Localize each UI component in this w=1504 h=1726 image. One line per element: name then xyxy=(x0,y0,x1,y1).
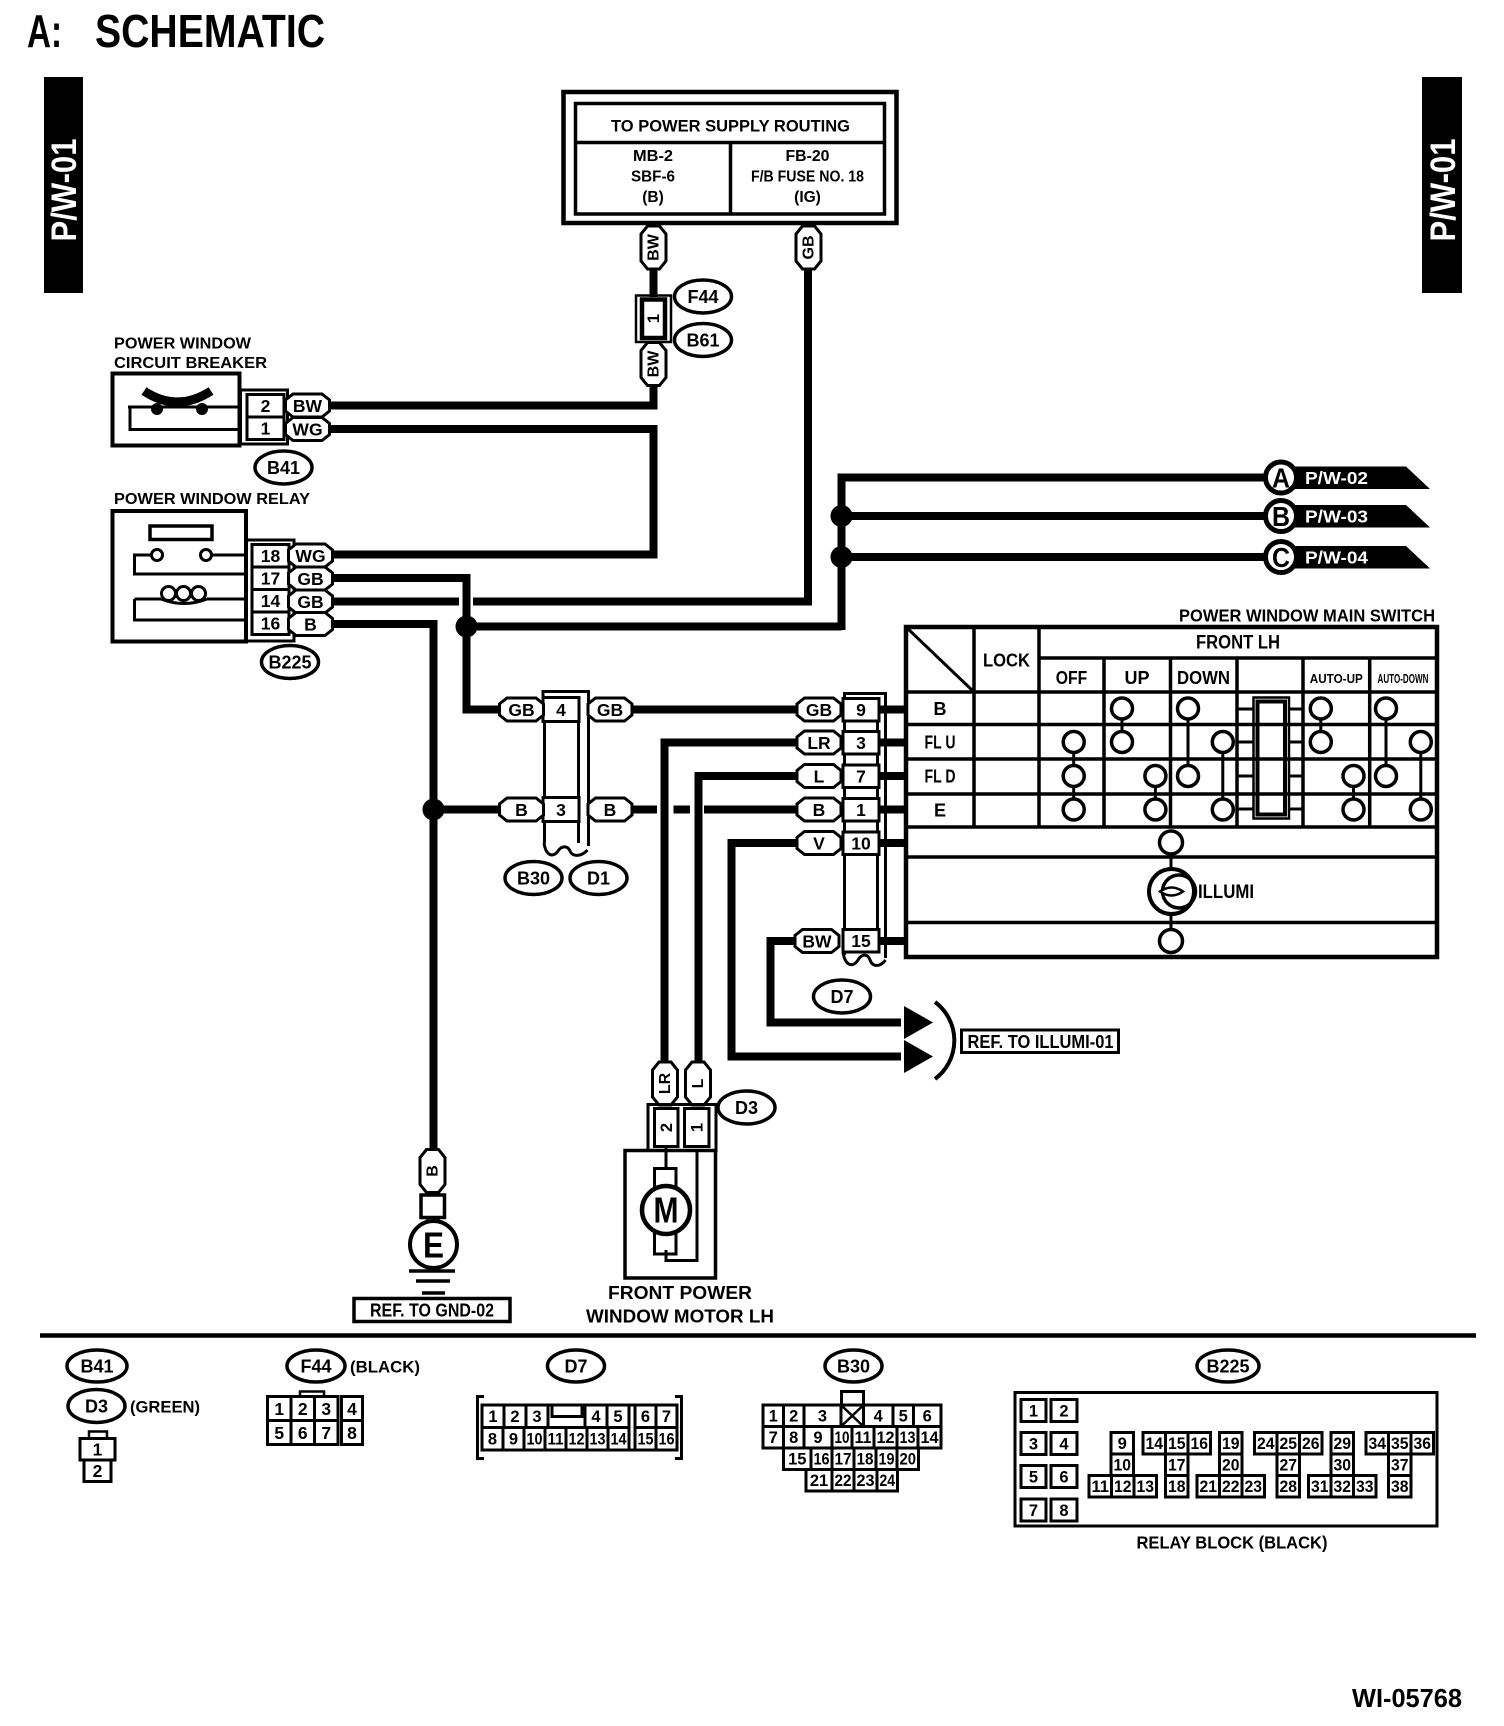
svg-text:RELAY BLOCK (BLACK): RELAY BLOCK (BLACK) xyxy=(1137,1533,1328,1553)
svg-text:1: 1 xyxy=(645,314,663,323)
svg-text:31: 31 xyxy=(1311,1478,1329,1496)
svg-text:3: 3 xyxy=(532,1408,541,1426)
svg-text:BW: BW xyxy=(802,931,832,951)
svg-text:18: 18 xyxy=(857,1451,874,1469)
svg-text:6: 6 xyxy=(1059,1468,1068,1486)
svg-text:FB-20: FB-20 xyxy=(786,148,830,165)
svg-text:A:: A: xyxy=(27,5,62,57)
svg-text:25: 25 xyxy=(1280,1435,1298,1453)
svg-text:B: B xyxy=(934,699,947,719)
svg-text:15: 15 xyxy=(788,1451,806,1469)
svg-text:5: 5 xyxy=(1029,1468,1038,1486)
svg-text:BW: BW xyxy=(646,350,663,378)
svg-text:B: B xyxy=(304,614,317,634)
svg-text:D1: D1 xyxy=(587,868,610,888)
svg-text:WI-05768: WI-05768 xyxy=(1352,1683,1462,1713)
svg-text:4: 4 xyxy=(874,1408,884,1426)
svg-text:37: 37 xyxy=(1391,1457,1409,1475)
svg-text:P/W-03: P/W-03 xyxy=(1305,507,1368,527)
svg-text:8: 8 xyxy=(488,1431,497,1449)
svg-text:4: 4 xyxy=(556,700,566,720)
svg-text:24: 24 xyxy=(1257,1435,1275,1453)
svg-text:B30: B30 xyxy=(837,1356,870,1376)
svg-text:BW: BW xyxy=(293,396,323,416)
svg-text:10: 10 xyxy=(1114,1457,1132,1475)
svg-text:M: M xyxy=(654,1190,679,1231)
svg-text:6: 6 xyxy=(923,1408,932,1426)
svg-text:WG: WG xyxy=(292,419,322,439)
svg-text:L: L xyxy=(814,766,825,786)
svg-text:8: 8 xyxy=(789,1429,798,1447)
svg-text:2: 2 xyxy=(510,1408,519,1426)
svg-text:P/W-02: P/W-02 xyxy=(1305,468,1368,488)
svg-text:14: 14 xyxy=(611,1431,628,1449)
svg-text:19: 19 xyxy=(1222,1435,1240,1453)
svg-text:B: B xyxy=(1272,501,1290,532)
svg-text:11: 11 xyxy=(1092,1478,1110,1496)
svg-text:V: V xyxy=(813,833,825,853)
svg-text:WINDOW MOTOR LH: WINDOW MOTOR LH xyxy=(586,1307,774,1327)
svg-text:1: 1 xyxy=(261,419,271,439)
svg-text:(BLACK): (BLACK) xyxy=(350,1359,420,1377)
svg-text:SCHEMATIC: SCHEMATIC xyxy=(95,5,325,57)
svg-text:28: 28 xyxy=(1280,1478,1298,1496)
svg-text:P/W-01: P/W-01 xyxy=(45,139,84,242)
svg-text:22: 22 xyxy=(835,1472,852,1490)
svg-text:14: 14 xyxy=(921,1429,940,1447)
svg-text:27: 27 xyxy=(1280,1457,1298,1475)
svg-text:7: 7 xyxy=(662,1408,671,1426)
svg-text:1: 1 xyxy=(488,1408,497,1426)
svg-text:4: 4 xyxy=(347,1399,357,1419)
svg-text:GB: GB xyxy=(597,700,623,720)
svg-text:15: 15 xyxy=(638,1431,654,1449)
svg-text:2: 2 xyxy=(1059,1402,1068,1420)
svg-text:3: 3 xyxy=(321,1399,331,1419)
svg-text:E: E xyxy=(934,801,946,821)
svg-text:33: 33 xyxy=(1356,1478,1374,1496)
svg-text:L: L xyxy=(690,1078,707,1088)
svg-text:2: 2 xyxy=(93,1461,103,1481)
svg-text:18: 18 xyxy=(1168,1478,1186,1496)
svg-text:B41: B41 xyxy=(80,1356,113,1376)
svg-text:B30: B30 xyxy=(517,868,550,888)
svg-text:LR: LR xyxy=(657,1072,674,1094)
svg-text:9: 9 xyxy=(813,1429,822,1447)
svg-text:6: 6 xyxy=(641,1408,650,1426)
svg-text:B: B xyxy=(604,800,617,820)
svg-text:8: 8 xyxy=(347,1423,357,1443)
svg-text:17: 17 xyxy=(835,1451,852,1469)
svg-text:B61: B61 xyxy=(686,330,719,350)
svg-text:18: 18 xyxy=(261,546,281,566)
svg-text:C: C xyxy=(1272,542,1290,573)
svg-text:19: 19 xyxy=(879,1451,895,1469)
svg-text:11: 11 xyxy=(855,1429,872,1447)
svg-text:2: 2 xyxy=(658,1123,676,1132)
svg-text:3: 3 xyxy=(1029,1435,1038,1453)
svg-text:12: 12 xyxy=(877,1429,895,1447)
svg-text:23: 23 xyxy=(857,1472,875,1490)
svg-text:9: 9 xyxy=(856,700,866,720)
svg-text:16: 16 xyxy=(261,614,281,634)
svg-text:WG: WG xyxy=(295,546,325,566)
svg-text:8: 8 xyxy=(1059,1502,1068,1520)
svg-text:D7: D7 xyxy=(830,987,853,1007)
svg-text:CIRCUIT BREAKER: CIRCUIT BREAKER xyxy=(114,355,267,372)
svg-text:9: 9 xyxy=(1118,1435,1127,1453)
svg-text:LOCK: LOCK xyxy=(983,650,1031,671)
svg-text:GB: GB xyxy=(508,700,534,720)
svg-text:7: 7 xyxy=(769,1429,778,1447)
svg-text:P/W-01: P/W-01 xyxy=(1424,139,1463,242)
svg-text:36: 36 xyxy=(1414,1435,1432,1453)
svg-text:FL D: FL D xyxy=(925,767,956,787)
svg-text:1: 1 xyxy=(93,1440,103,1460)
svg-text:13: 13 xyxy=(900,1429,916,1447)
svg-text:17: 17 xyxy=(261,569,280,589)
svg-text:12: 12 xyxy=(569,1431,585,1449)
svg-text:21: 21 xyxy=(810,1472,828,1490)
svg-text:10: 10 xyxy=(835,1429,850,1447)
svg-text:9: 9 xyxy=(509,1431,518,1449)
svg-text:P/W-04: P/W-04 xyxy=(1305,548,1368,568)
svg-text:16: 16 xyxy=(1191,1435,1209,1453)
svg-text:3: 3 xyxy=(856,733,866,753)
svg-text:B225: B225 xyxy=(1206,1356,1249,1376)
svg-text:TO POWER SUPPLY ROUTING: TO POWER SUPPLY ROUTING xyxy=(611,118,850,136)
svg-text:B41: B41 xyxy=(267,458,300,478)
svg-text:38: 38 xyxy=(1391,1478,1409,1496)
svg-text:1: 1 xyxy=(769,1408,778,1426)
svg-text:7: 7 xyxy=(856,767,866,787)
svg-text:13: 13 xyxy=(590,1431,606,1449)
svg-text:GB: GB xyxy=(806,700,832,720)
svg-text:AUTO-DOWN: AUTO-DOWN xyxy=(1378,671,1429,686)
svg-text:(B): (B) xyxy=(642,189,664,206)
svg-text:35: 35 xyxy=(1391,1435,1409,1453)
svg-text:AUTO-UP: AUTO-UP xyxy=(1310,671,1363,686)
svg-text:SBF-6: SBF-6 xyxy=(631,169,675,186)
svg-text:15: 15 xyxy=(1168,1435,1186,1453)
svg-text:FL U: FL U xyxy=(925,733,956,753)
svg-text:ILLUMI: ILLUMI xyxy=(1198,882,1254,903)
svg-text:GB: GB xyxy=(297,569,323,589)
svg-text:22: 22 xyxy=(1222,1478,1240,1496)
svg-text:D7: D7 xyxy=(564,1356,587,1376)
svg-text:4: 4 xyxy=(1059,1435,1069,1453)
svg-text:16: 16 xyxy=(659,1431,675,1449)
svg-text:1: 1 xyxy=(856,800,866,820)
svg-text:14: 14 xyxy=(1146,1435,1164,1453)
svg-text:1: 1 xyxy=(1029,1402,1038,1420)
svg-text:12: 12 xyxy=(1114,1478,1132,1496)
svg-text:1: 1 xyxy=(688,1123,706,1132)
svg-text:5: 5 xyxy=(899,1408,908,1426)
svg-text:MB-2: MB-2 xyxy=(633,148,673,165)
svg-text:13: 13 xyxy=(1137,1478,1155,1496)
svg-text:6: 6 xyxy=(298,1423,308,1443)
svg-text:16: 16 xyxy=(814,1451,830,1469)
svg-text:29: 29 xyxy=(1334,1435,1352,1453)
svg-text:2: 2 xyxy=(298,1399,308,1419)
svg-text:10: 10 xyxy=(851,834,871,854)
svg-text:4: 4 xyxy=(591,1408,601,1426)
svg-text:3: 3 xyxy=(818,1408,827,1426)
svg-text:GB: GB xyxy=(297,592,323,612)
svg-text:21: 21 xyxy=(1200,1478,1218,1496)
svg-text:E: E xyxy=(423,1225,444,1266)
svg-text:2: 2 xyxy=(789,1408,798,1426)
svg-text:B: B xyxy=(813,800,826,820)
svg-text:26: 26 xyxy=(1302,1435,1320,1453)
svg-text:2: 2 xyxy=(261,396,271,416)
svg-text:20: 20 xyxy=(1222,1457,1240,1475)
svg-text:23: 23 xyxy=(1245,1478,1263,1496)
svg-text:REF. TO GND-02: REF. TO GND-02 xyxy=(370,1300,494,1321)
svg-text:POWER WINDOW MAIN SWITCH: POWER WINDOW MAIN SWITCH xyxy=(1179,606,1435,626)
svg-text:UP: UP xyxy=(1124,668,1149,688)
svg-text:7: 7 xyxy=(1029,1502,1038,1520)
svg-text:15: 15 xyxy=(851,931,871,951)
svg-text:REF. TO ILLUMI-01: REF. TO ILLUMI-01 xyxy=(968,1032,1114,1052)
svg-text:30: 30 xyxy=(1334,1457,1352,1475)
svg-text:D3: D3 xyxy=(85,1396,108,1416)
svg-text:BW: BW xyxy=(646,233,663,261)
svg-text:(IG): (IG) xyxy=(794,189,821,206)
svg-text:32: 32 xyxy=(1334,1478,1352,1496)
svg-text:11: 11 xyxy=(548,1431,564,1449)
svg-text:17: 17 xyxy=(1168,1457,1186,1475)
svg-text:20: 20 xyxy=(900,1451,917,1469)
svg-text:24: 24 xyxy=(880,1472,896,1490)
svg-text:B225: B225 xyxy=(268,652,311,672)
svg-text:OFF: OFF xyxy=(1056,668,1088,688)
svg-text:5: 5 xyxy=(274,1423,284,1443)
svg-text:POWER WINDOW: POWER WINDOW xyxy=(114,336,252,353)
svg-text:3: 3 xyxy=(556,800,566,820)
svg-text:DOWN: DOWN xyxy=(1177,668,1230,688)
svg-text:LR: LR xyxy=(807,733,831,753)
svg-text:1: 1 xyxy=(274,1399,284,1419)
svg-text:GB: GB xyxy=(801,236,818,260)
svg-text:(GREEN): (GREEN) xyxy=(130,1399,200,1417)
svg-text:B: B xyxy=(425,1165,442,1177)
svg-text:B: B xyxy=(515,800,528,820)
svg-text:F/B FUSE NO. 18: F/B FUSE NO. 18 xyxy=(751,169,864,186)
svg-text:POWER WINDOW RELAY: POWER WINDOW RELAY xyxy=(114,491,310,508)
svg-text:7: 7 xyxy=(321,1423,331,1443)
svg-text:10: 10 xyxy=(527,1431,543,1449)
svg-text:F44: F44 xyxy=(687,287,718,307)
svg-text:34: 34 xyxy=(1369,1435,1387,1453)
svg-text:FRONT POWER: FRONT POWER xyxy=(608,1283,752,1303)
svg-text:5: 5 xyxy=(613,1408,622,1426)
svg-text:14: 14 xyxy=(261,591,281,611)
svg-text:FRONT LH: FRONT LH xyxy=(1196,633,1280,654)
svg-text:F44: F44 xyxy=(300,1356,331,1376)
svg-text:A: A xyxy=(1272,463,1290,494)
svg-text:D3: D3 xyxy=(735,1098,758,1118)
